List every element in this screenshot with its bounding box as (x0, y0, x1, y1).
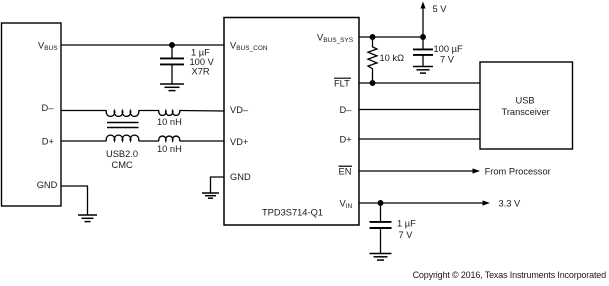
USB connector box (left) (2, 23, 62, 206)
svg-text:D–: D– (340, 105, 353, 115)
junction VIN / C3 (378, 201, 383, 206)
resistor R1 10 kOhm (368, 37, 377, 83)
svg-text:10 nH: 10 nH (157, 144, 182, 154)
svg-text:FLT: FLT (334, 79, 350, 89)
svg-text:7 V: 7 V (440, 55, 455, 65)
svg-text:VD+: VD+ (230, 137, 248, 147)
wire FLT to USB transceiver (359, 82, 480, 84)
svg-text:D–: D– (42, 103, 55, 113)
label USB Transceiver (502, 96, 550, 118)
junction VBUS_SYS / C2 / 5V (421, 35, 426, 40)
junction VBUS / C1 (170, 43, 175, 48)
wire VBUS_SYS rail (359, 36, 423, 38)
value label C3: 1 uF / 7 V (397, 219, 416, 241)
svg-text:GND: GND (37, 180, 58, 190)
svg-text:VBUS_SYS: VBUS_SYS (317, 33, 354, 45)
svg-text:10 kΩ: 10 kΩ (380, 53, 405, 63)
svg-text:Copyright © 2016, Texas Instru: Copyright © 2016, Texas Instruments Inco… (413, 270, 607, 280)
inductor L1 10 nH (D- line) (159, 111, 180, 116)
ground (C1) (160, 84, 184, 91)
value label C2: 100 uF / 7 V (434, 44, 463, 65)
ground (left box) (78, 215, 97, 222)
wire GND (left box) to ground (61, 186, 88, 215)
svg-text:VD–: VD– (230, 105, 249, 115)
common-mode choke winding (D- side) (106, 111, 139, 117)
svg-text:X7R: X7R (192, 67, 210, 77)
5 V supply arrow (420, 2, 425, 38)
wire D- left (to VD-) (61, 110, 107, 112)
svg-text:GND: GND (230, 172, 251, 182)
USB Transceiver box (480, 62, 573, 149)
junction VBUS_SYS / R1 (370, 35, 375, 40)
svg-text:D+: D+ (42, 137, 54, 147)
svg-text:1 µF: 1 µF (397, 219, 416, 229)
svg-text:10 nH: 10 nH (157, 117, 182, 127)
svg-text:VBUS_CON: VBUS_CON (230, 41, 268, 53)
svg-text:From Processor: From Processor (485, 167, 551, 177)
svg-text:3.3 V: 3.3 V (499, 199, 522, 209)
svg-text:CMC: CMC (112, 160, 133, 170)
svg-text:100 V: 100 V (190, 57, 215, 67)
svg-text:100 µF: 100 µF (434, 44, 463, 54)
svg-text:5 V: 5 V (433, 4, 448, 14)
wire GND pin (IC) to ground (211, 177, 225, 193)
svg-text:VIN: VIN (340, 199, 353, 211)
svg-text:VBUS: VBUS (38, 41, 58, 53)
wire D+ left (to VD+) (61, 140, 107, 142)
ground (IC GND pin) (202, 193, 219, 198)
capacitor C2 100 uF 7 V (413, 37, 433, 67)
junction FLT / R1 (370, 81, 375, 86)
common-mode choke winding (D+ side) (106, 135, 139, 141)
svg-text:Transceiver: Transceiver (502, 107, 550, 117)
wire VIN to 3.3 V arrow (359, 202, 483, 204)
ground (C3) (370, 254, 392, 261)
wire EN to From Processor arrow (359, 170, 473, 172)
wire D- right to USB transceiver (359, 109, 480, 111)
wire D+ right to USB transceiver (359, 138, 480, 140)
svg-text:D+: D+ (340, 135, 352, 145)
capacitor C1 1 uF 100 V X7R (160, 45, 184, 84)
svg-text:USB: USB (516, 96, 535, 106)
common-mode choke core (107, 122, 139, 124)
svg-text:7 V: 7 V (399, 230, 414, 240)
capacitor C3 1 uF 7 V (370, 203, 392, 254)
svg-text:1 µF: 1 µF (191, 48, 210, 58)
svg-text:USB2.0: USB2.0 (106, 149, 138, 159)
svg-text:TPD3S714-Q1: TPD3S714-Q1 (262, 208, 323, 218)
svg-text:EN: EN (339, 167, 352, 177)
value label C1: 1 uF / 100 V / X7R (190, 48, 215, 77)
ground (C2) (413, 67, 433, 74)
IC U1 TPD3S714-Q1 box (224, 18, 359, 226)
inductor L2 10 nH (D+ line) (159, 136, 180, 141)
wire VBUS to VBUS_CON (61, 44, 224, 46)
label USB2.0 CMC (106, 149, 138, 170)
